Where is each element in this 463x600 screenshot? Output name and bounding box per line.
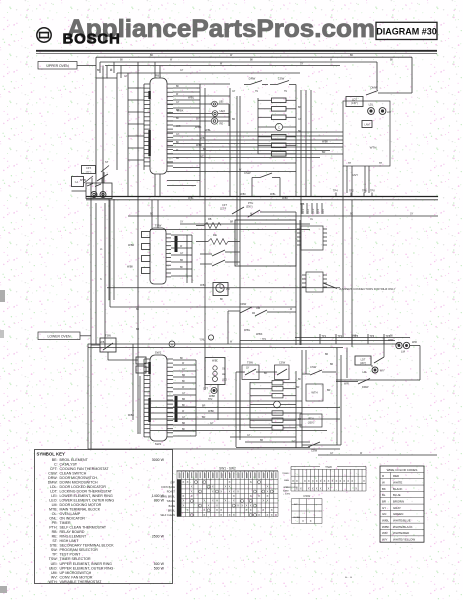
svg-text:LDL: LDL (362, 371, 367, 374)
svg-text:W/BL: W/BL (188, 198, 194, 200)
svg-text:W/BK: W/BK (208, 410, 215, 413)
svg-text:CONV BROIL: CONV BROIL (160, 495, 175, 498)
clean switch CSW upper (270, 77, 296, 85)
svg-text:W/BK: W/BK (200, 285, 206, 287)
svg-text:WTH: WTH (311, 391, 317, 395)
svg-text:TP2: TP2 (349, 190, 354, 193)
svg-text:OL1: OL1 (301, 209, 305, 214)
svg-text:DRW: DRW (240, 302, 247, 306)
selector table SW1-SW2 (160, 467, 278, 518)
svg-text:PTH:: PTH: (49, 526, 57, 530)
svg-text:TP8: TP8 (370, 190, 375, 193)
svg-text:OL:: OL: (52, 512, 58, 516)
svg-text:TP: TP (379, 162, 382, 165)
svg-text:BR: BR (327, 389, 331, 392)
svg-text:LM: LM (387, 110, 392, 114)
mid enclosure box (235, 220, 296, 266)
svg-text:WTH: WTH (370, 146, 377, 150)
svg-text:W/BK: W/BK (128, 414, 135, 417)
wire lower top bus (88, 338, 410, 348)
wire TSW right fanout (107, 200, 340, 307)
high limit switch ST (97, 160, 109, 183)
svg-text:X: X (237, 503, 239, 507)
svg-text:X: X (203, 513, 205, 517)
svg-text:X: X (328, 479, 330, 483)
timer PR box lower (213, 283, 228, 296)
wire mid right verticals (296, 166, 352, 347)
svg-text:BK: BK (136, 309, 140, 311)
svg-text:GY: GY (246, 368, 250, 370)
svg-text:TP: TP (348, 162, 351, 165)
svg-text:DMW:: DMW: (48, 480, 58, 484)
svg-text:BK: BK (298, 379, 302, 381)
switch pair mid (200, 250, 240, 266)
svg-text:X: X (224, 485, 226, 489)
clean switch CSW lower right (302, 365, 336, 375)
cooling fan thermostat CFT lower (203, 388, 217, 399)
svg-text:LOWER ELEMENT, INNER RING: LOWER ELEMENT, INNER RING (60, 494, 113, 498)
svg-text:GN/Y: GN/Y (352, 174, 358, 177)
oven lamp OL lower (213, 366, 226, 371)
door microswitch DRW upper (244, 77, 268, 85)
switch cluster lower mid (228, 302, 296, 344)
svg-text:X: X (229, 480, 231, 484)
wire lower right frame (302, 348, 437, 456)
svg-text:X: X (220, 508, 222, 512)
svg-text:LEI: LEI (222, 373, 226, 376)
svg-text:LEO: LEO (222, 379, 227, 382)
svg-text:GY: GY (176, 102, 180, 104)
svg-text:BR: BR (182, 423, 186, 425)
svg-text:BAKE: BAKE (169, 505, 176, 508)
table side note (283, 487, 298, 496)
svg-text:BR: BR (182, 375, 186, 377)
svg-text:W/BL: W/BL (212, 360, 219, 363)
svg-text:RING ELEMENT: RING ELEMENT (60, 535, 87, 539)
svg-text:CONV. FAN MOTOR: CONV. FAN MOTOR (60, 575, 93, 579)
svg-text:DOOR LOCKED INDICATOR: DOOR LOCKED INDICATOR (60, 485, 107, 489)
svg-text:BK: BK (390, 60, 394, 62)
svg-text:OL4: OL4 (316, 209, 320, 214)
svg-text:UEO:: UEO: (49, 566, 58, 570)
svg-text:115°C: 115°C (86, 171, 92, 173)
svg-text:GY: GY (300, 64, 304, 66)
svg-text:X: X (250, 508, 252, 512)
svg-text:WIRE COLOR CODES: WIRE COLOR CODES (387, 468, 418, 472)
svg-text:RE:: RE: (52, 535, 58, 539)
svg-text:X: X (216, 499, 218, 503)
svg-text:LEO:: LEO: (49, 498, 57, 502)
main terminal block MTB (80, 178, 114, 300)
svg-text:DMW: DMW (362, 385, 369, 389)
svg-text:X: X (312, 486, 314, 490)
svg-text:X: X (216, 508, 218, 512)
svg-text:PTH: PTH (308, 417, 313, 421)
svg-text:TN: TN (284, 91, 287, 93)
svg-text:800 W: 800 W (154, 498, 165, 502)
svg-text:CSW: CSW (279, 361, 286, 365)
svg-text:CSW: CSW (278, 77, 285, 81)
jumper connector block upper (297, 203, 327, 250)
clean switch table CSW (292, 494, 323, 523)
svg-text:X: X (310, 519, 312, 523)
svg-text:X: X (343, 479, 345, 483)
svg-text:X: X (233, 499, 235, 503)
svg-text:X: X (302, 519, 304, 523)
svg-text:MTB:: MTB: (49, 508, 57, 512)
svg-text:RED: RED (393, 474, 399, 478)
svg-text:X: X (267, 499, 269, 503)
svg-text:BK: BK (175, 239, 179, 241)
svg-text:BR: BR (298, 131, 302, 133)
svg-text:UM: UM (256, 306, 260, 310)
svg-text:LAM: LAM (365, 124, 370, 127)
svg-text:X: X (224, 499, 226, 503)
cooling fan thermostat CFT upper left (82, 166, 96, 184)
svg-text:BL: BL (382, 493, 386, 497)
clean switch CSW mid (244, 171, 280, 196)
svg-text:LOWER OVEN: LOWER OVEN (48, 334, 72, 338)
wire lower long horizontals (88, 312, 340, 449)
svg-text:OL5: OL5 (321, 209, 325, 214)
svg-text:SW2: SW2 (155, 351, 162, 355)
svg-text:SYMBOL KEY: SYMBOL KEY (37, 452, 65, 457)
svg-text:X: X (324, 479, 326, 483)
svg-text:HIGH LIMIT: HIGH LIMIT (60, 539, 80, 543)
wire lower right verticals (336, 338, 420, 381)
svg-text:BK: BK (176, 118, 180, 120)
svg-text:GRAY: GRAY (393, 506, 401, 510)
svg-text:X: X (262, 508, 264, 512)
svg-text:W/B: W/B (300, 204, 305, 206)
svg-text:TP2: TP2 (338, 335, 343, 338)
upper element UEI 500W (212, 100, 224, 107)
svg-text:CFT:: CFT: (50, 467, 58, 471)
door microswitch DRW lower (336, 379, 370, 390)
svg-text:GY: GY (176, 134, 180, 136)
svg-text:WV:: WV: (51, 575, 58, 579)
svg-text:DOOR MICROSWITCH: DOOR MICROSWITCH (60, 476, 98, 480)
svg-text:TN: TN (255, 91, 258, 93)
svg-text:BK: BK (220, 299, 224, 301)
svg-text:BK: BK (150, 214, 154, 216)
svg-text:W/B: W/B (200, 137, 205, 140)
svg-text:W/R: W/R (388, 339, 393, 342)
wire RB1 left stubs (128, 84, 144, 170)
lower element LEI 1400W (213, 371, 226, 376)
jumper connectors note (323, 283, 396, 291)
svg-text:W/R: W/R (412, 341, 417, 344)
svg-text:W: W (382, 480, 385, 484)
svg-text:TIMER SELECTOR: TIMER SELECTOR (60, 557, 92, 561)
svg-text:BK: BK (350, 54, 354, 57)
svg-text:ON INDICATOR: ON INDICATOR (60, 517, 86, 521)
svg-text:BR: BR (182, 399, 186, 401)
svg-text:GY: GY (182, 417, 186, 419)
upper element UEO 500W (212, 109, 225, 116)
svg-text:X: X (267, 485, 269, 489)
svg-text:GY: GY (247, 435, 251, 437)
BOSCH logo emblem (37, 28, 51, 42)
svg-text:WHITE/BLACK: WHITE/BLACK (393, 525, 413, 529)
svg-text:X: X (308, 479, 310, 483)
svg-text:TP2: TP2 (208, 398, 213, 401)
svg-text:BK: BK (390, 336, 394, 338)
svg-text:(130°): (130°) (351, 102, 358, 105)
svg-text:W/BK: W/BK (322, 141, 329, 144)
ring element RE upper (211, 118, 223, 126)
svg-text:X: X (182, 499, 184, 503)
svg-text:GY: GY (124, 76, 128, 78)
svg-text:(300°): (300°) (308, 422, 315, 425)
svg-text:GY: GY (196, 118, 200, 121)
variable thermostat WTH upper block (343, 101, 390, 166)
svg-text:W/R: W/R (352, 336, 357, 338)
svg-text:X: X (187, 508, 189, 512)
svg-text:BR: BR (260, 440, 264, 442)
svg-text:BR: BR (298, 419, 302, 421)
svg-text:MAIN TERMINAL BLOCK: MAIN TERMINAL BLOCK (60, 508, 101, 512)
svg-text:PROGRAM SELECTOR: PROGRAM SELECTOR (60, 548, 99, 552)
svg-text:WTH:: WTH: (48, 580, 57, 584)
svg-text:X: X (316, 479, 318, 483)
svg-text:CFT: CFT (222, 203, 227, 207)
svg-text:X: X (304, 479, 306, 483)
svg-text:BK: BK (176, 142, 180, 144)
svg-text:BK: BK (180, 358, 184, 360)
svg-text:LM: LM (401, 350, 406, 354)
broil element zigzag upper mid (196, 218, 221, 229)
svg-text:C:: C: (54, 462, 58, 466)
svg-text:DRW:: DRW: (48, 476, 57, 480)
svg-text:W/BK: W/BK (127, 266, 134, 269)
svg-text:LOWER ELEMENT, OUTER RING: LOWER ELEMENT, OUTER RING (60, 498, 115, 502)
svg-text:UP MICROSWITCH: UP MICROSWITCH (60, 571, 92, 575)
svg-text:CSW: CSW (310, 365, 317, 369)
svg-text:GY: GY (182, 393, 186, 395)
svg-text:X: X (233, 513, 235, 517)
svg-text:BOSCH: BOSCH (63, 31, 121, 48)
svg-text:X: X (250, 503, 252, 507)
svg-text:X: X (250, 480, 252, 484)
svg-text:JUMPERS CONNECTORS FOR 50HZ ON: JUMPERS CONNECTORS FOR 50HZ ONLY (339, 287, 396, 291)
svg-text:T-BAKE: T-BAKE (166, 500, 175, 503)
svg-text:BAKE: BAKE (283, 489, 289, 492)
svg-text:GREEN: GREEN (393, 512, 403, 516)
locking door thermostat LDT lower (355, 356, 384, 365)
svg-text:W/BK: W/BK (282, 198, 288, 200)
svg-text:BR: BR (202, 405, 206, 408)
svg-text:BR: BR (176, 110, 180, 112)
svg-text:UEO: UEO (220, 109, 226, 113)
wire top bus (96, 54, 412, 93)
svg-text:BR: BR (296, 386, 300, 389)
svg-text:BK: BK (176, 86, 180, 88)
wire RB1 right fanout (173, 84, 230, 126)
svg-text:TSW: TSW (247, 361, 253, 365)
wire element leads upper (167, 97, 229, 130)
svg-text:DMW: DMW (371, 86, 378, 90)
svg-text:ONL:: ONL: (49, 517, 57, 521)
svg-text:CSW: CSW (244, 171, 251, 175)
svg-text:CLEAN: CLEAN (293, 516, 300, 519)
relay contact column upper (258, 98, 296, 156)
svg-text:VARIABLE THERMOSTAT: VARIABLE THERMOSTAT (60, 580, 103, 584)
svg-text:W/BL: W/BL (270, 194, 276, 196)
svg-text:OVEN LAMP: OVEN LAMP (60, 512, 81, 516)
svg-text:(300°): (300°) (246, 206, 253, 209)
svg-text:X: X (267, 494, 269, 498)
svg-text:X: X (233, 494, 235, 498)
lower element box (205, 358, 225, 385)
svg-text:X: X (258, 494, 260, 498)
wire upper right bundle (296, 85, 311, 346)
svg-text:DOOR LOCKING MOTOR: DOOR LOCKING MOTOR (60, 503, 102, 507)
timer motor PR circle (216, 284, 230, 292)
svg-text:X: X (312, 479, 314, 483)
svg-text:RB:: RB: (52, 530, 58, 534)
symbol key list (48, 458, 165, 584)
door locked indicator LDL lower (362, 367, 385, 374)
wire main horizontal bus (86, 197, 438, 230)
jumper connector block lower (302, 272, 327, 292)
svg-text:CSW: CSW (303, 494, 310, 498)
svg-text:X: X (267, 489, 269, 493)
svg-text:DIAGRAM #30: DIAGRAM #30 (376, 26, 437, 36)
svg-text:LM:: LM: (52, 503, 58, 507)
svg-text:UPPER ELEMENT, INNER RING: UPPER ELEMENT, INNER RING (60, 562, 113, 566)
svg-text:GY: GY (232, 91, 236, 93)
svg-text:SW:: SW: (51, 548, 58, 552)
svg-text:W/BK: W/BK (240, 194, 246, 196)
svg-text:500 W: 500 W (154, 566, 165, 570)
svg-text:500 W: 500 W (154, 562, 165, 566)
svg-text:TEST POINT: TEST POINT (60, 553, 82, 557)
svg-text:X: X (320, 479, 322, 483)
svg-text:X: X (246, 508, 248, 512)
svg-text:LDT:: LDT: (50, 489, 58, 493)
terminal box L1 (72, 177, 87, 192)
svg-text:CFT: CFT (203, 388, 208, 391)
svg-text:X: X (182, 503, 184, 507)
svg-text:UPPER OVEN: UPPER OVEN (46, 64, 69, 68)
ring element RE zigzag (196, 233, 240, 245)
svg-text:X: X (336, 479, 338, 483)
svg-text:BK: BK (120, 60, 124, 62)
wire upper block leads (333, 166, 375, 197)
svg-text:X: X (212, 485, 214, 489)
svg-text:GY: GY (292, 440, 296, 443)
svg-text:PR:: PR: (52, 521, 58, 525)
svg-text:X: X (316, 486, 318, 490)
svg-text:BR: BR (230, 222, 234, 224)
timer switch TSW lower (236, 361, 262, 380)
svg-text:X: X (191, 489, 193, 493)
oven lamp box LAM upper (362, 121, 372, 128)
svg-text:X: X (216, 503, 218, 507)
svg-text:X: X (208, 503, 210, 507)
test point labels lower (320, 334, 391, 344)
svg-text:BK: BK (150, 54, 154, 57)
svg-text:TIMER: TIMER (60, 521, 71, 525)
svg-text:GY: GY (180, 222, 184, 224)
lower element LEO 800W (213, 377, 228, 382)
svg-text:W/BL: W/BL (188, 97, 195, 100)
svg-text:GY: GY (298, 119, 302, 121)
svg-text:X: X (308, 486, 310, 490)
svg-text:BROWN: BROWN (393, 499, 404, 503)
svg-text:X: X (300, 486, 302, 490)
svg-text:X: X (271, 508, 273, 512)
svg-text:OFF: OFF (170, 481, 175, 484)
svg-text:X: X (220, 513, 222, 517)
svg-text:X: X (229, 485, 231, 489)
svg-text:X: X (191, 494, 193, 498)
svg-text:(130°): (130°) (360, 363, 367, 365)
svg-text:WHITE: WHITE (393, 480, 402, 484)
svg-text:UM:: UM: (51, 571, 58, 575)
wire color codes table (380, 466, 424, 542)
svg-text:BR: BR (330, 364, 334, 366)
self clean thermostat PTH lower (296, 386, 322, 427)
svg-text:X: X (351, 479, 353, 483)
svg-text:GY: GY (410, 214, 414, 216)
svg-text:BK: BK (264, 372, 268, 375)
svg-text:X: X (191, 485, 193, 489)
svg-text:UEI:: UEI: (51, 562, 58, 566)
svg-text:X: X (246, 503, 248, 507)
svg-text:TSW: TSW (105, 334, 111, 338)
clean switch CSW bottom (308, 442, 320, 453)
svg-text:X: X (220, 489, 222, 493)
svg-text:BR: BR (382, 499, 386, 503)
wire labels texture (100, 60, 414, 456)
timer selector table TSW (282, 465, 366, 491)
svg-text:LEI:: LEI: (51, 494, 57, 498)
svg-text:115°F: 115°F (220, 208, 227, 211)
svg-text:X: X (229, 489, 231, 493)
svg-text:ST:: ST: (52, 539, 57, 543)
svg-text:BK: BK (182, 381, 186, 383)
wire long bundle to WTH block (167, 129, 343, 172)
timer selector switch TSW lower left (91, 334, 138, 361)
svg-text:W/R: W/R (344, 383, 349, 386)
svg-text:TP1: TP1 (322, 335, 327, 338)
svg-text:COOLING FAN THERMOSTAT: COOLING FAN THERMOSTAT (60, 467, 110, 471)
svg-text:BLACK: BLACK (393, 487, 403, 491)
svg-text:DOWN MICROSWITCH: DOWN MICROSWITCH (60, 480, 98, 484)
svg-text:OFF: OFF (285, 487, 290, 489)
svg-text:WHITE/YELLOW: WHITE/YELLOW (393, 538, 415, 542)
svg-text:BK: BK (250, 60, 254, 62)
svg-text:X: X (258, 513, 260, 517)
self clean thermostat PTH mid (246, 201, 296, 217)
svg-text:W/BL: W/BL (244, 329, 251, 332)
svg-text:X: X (339, 479, 341, 483)
svg-text:X: X (182, 494, 184, 498)
svg-text:CSW:: CSW: (48, 471, 57, 475)
svg-text:W/BK: W/BK (256, 333, 263, 336)
svg-text:W/BK: W/BK (196, 144, 203, 147)
svg-text:BROIL: BROIL (168, 510, 176, 513)
svg-text:RE: RE (213, 233, 217, 237)
LOWER OVEN label box (38, 332, 91, 340)
svg-text:LDL:: LDL: (50, 485, 58, 489)
svg-text:RB: RB (208, 218, 212, 221)
svg-text:X: X (262, 499, 264, 503)
svg-text:GN: GN (382, 512, 386, 516)
svg-text:TP1: TP1 (262, 339, 267, 341)
